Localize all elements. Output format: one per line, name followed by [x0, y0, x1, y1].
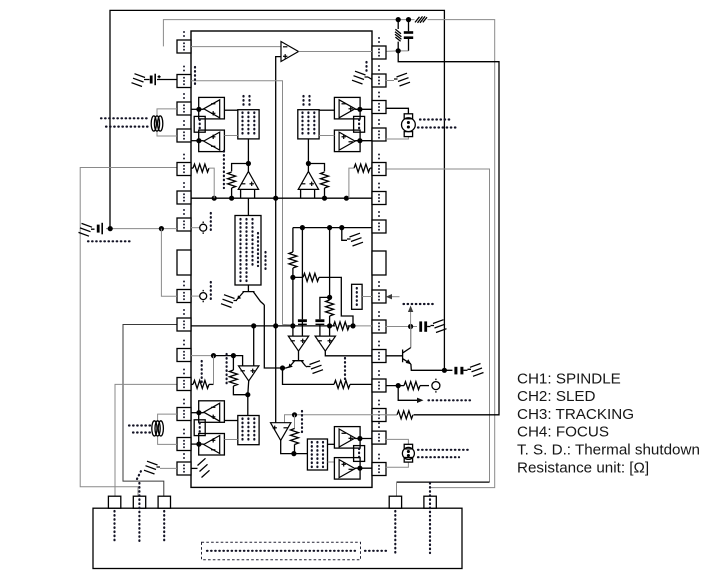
wire pin3R to motor [386, 108, 409, 114]
wire biasL to B [224, 135, 237, 137]
arrow 12R out [398, 386, 418, 401]
node G out [245, 392, 250, 397]
pin 2L [177, 66, 191, 88]
wire pin1R node [386, 50, 409, 53]
pin 1R [372, 37, 386, 59]
op-amp E1 feedback box [334, 97, 360, 119]
wire U1 out to pin1R [299, 51, 373, 53]
wire biasR bottom [307, 139, 309, 172]
capacitor C-fr [454, 367, 457, 375]
wire to R-G1 [232, 164, 249, 172]
op-amp C feedback box [199, 401, 225, 423]
wire tab R1 riser [397, 481, 490, 483]
logic box [235, 216, 261, 286]
wire rail1 [191, 197, 372, 199]
pin 9R [372, 281, 386, 303]
op-amp F [339, 460, 355, 478]
wire biasR2 to E [328, 443, 335, 445]
node pin15R [357, 466, 362, 471]
wire 10R down [410, 327, 412, 348]
dashed label box [202, 542, 361, 560]
wire pin1L to U1 [191, 46, 281, 48]
pin 4R [372, 119, 386, 141]
bias box L2 [238, 416, 259, 445]
wire pin4L to motor [157, 131, 177, 136]
wire pin4R [355, 140, 372, 142]
Y1 nodes [300, 225, 305, 230]
wire box to pin9R [362, 296, 372, 298]
pin 12R [372, 370, 386, 392]
wire biasL bottom [247, 139, 249, 172]
rail3 nodes [211, 353, 216, 358]
capacitor C-10R [419, 321, 422, 331]
op-amp H2 (down) [315, 336, 335, 351]
op-amp C [204, 403, 220, 421]
IC body [191, 31, 372, 487]
ground G-10R [431, 320, 447, 333]
transistor QR2 [403, 348, 411, 365]
wire H1 risers [293, 322, 303, 336]
wire pin12R node [386, 385, 404, 387]
node QR emitter [280, 365, 285, 370]
pin 12L [177, 369, 191, 391]
tab L1 [108, 496, 120, 508]
pin 5R [372, 154, 386, 176]
node pin14L [196, 442, 201, 447]
wire QR to R-12R rail [283, 368, 335, 384]
rail1 nodes [212, 196, 217, 201]
wire biasL2 to D [224, 439, 237, 441]
pin 10L [177, 309, 191, 331]
clock pad 9L [191, 295, 200, 297]
svg-text:CH1: SPINDLE: CH1: SPINDLE [517, 370, 621, 387]
node pin4R [357, 138, 362, 143]
motor ML1 coil [151, 116, 163, 131]
wire pin13L to motor [158, 414, 177, 421]
svg-text:Resistance unit: [Ω]: Resistance unit: [Ω] [517, 459, 649, 476]
label dots MR1 [420, 118, 452, 120]
ground G-QR [306, 366, 308, 367]
wire G2 legs [301, 189, 315, 198]
op-amp F1 feedback box [334, 130, 360, 152]
wire pin11R to QR2 [386, 355, 403, 357]
wire top bias line [163, 20, 494, 488]
wire pin4L [191, 140, 204, 142]
svg-text:CH3: TRACKING: CH3: TRACKING [517, 406, 634, 423]
wire pin3R [355, 108, 372, 110]
wire biasR to E1 [319, 109, 334, 111]
ground G-fr [468, 364, 484, 377]
pin 2R [372, 65, 386, 87]
label dots mid [223, 151, 225, 188]
wire QR2 collector [410, 327, 412, 348]
label dots MR2 [418, 449, 471, 451]
resistor R-rail2 [333, 322, 349, 330]
pin 13L [177, 399, 191, 421]
op-amp F feedback box [334, 458, 360, 480]
pin 14L [177, 429, 191, 451]
node 10R [408, 324, 413, 329]
op-amp F1 [339, 132, 355, 150]
op-amp U1 [281, 42, 299, 62]
pin 9L [177, 281, 191, 303]
op-amp H1 (down) [288, 336, 308, 351]
wire logic to QL [247, 285, 249, 292]
node biasL [246, 161, 251, 166]
op-amp E [339, 429, 355, 447]
wire pin14R int [355, 438, 372, 440]
arrow up 10R [410, 310, 412, 327]
resistor R-Y1 [292, 228, 294, 252]
ground G-7L [79, 223, 95, 236]
resistor R-Y2 [303, 273, 319, 281]
wire QR2 emitter [411, 364, 453, 370]
resistor R-G3 [232, 356, 234, 370]
ground G-QL [237, 299, 238, 301]
ground G-Y1 [342, 228, 347, 241]
small box 9R [352, 284, 363, 309]
pin 6R [372, 183, 386, 205]
pin 11L [177, 340, 191, 362]
op-amp D feedback box [199, 434, 225, 456]
pad 12R [432, 382, 440, 390]
resistor R-5R [370, 167, 372, 169]
wire 12L riser [213, 356, 215, 385]
wire pin15R int [355, 467, 372, 469]
wire H1 out [298, 351, 300, 360]
transistor QR [289, 361, 305, 367]
transistor QL [238, 292, 264, 305]
resistor R-T2 [291, 429, 299, 445]
resistor R-G2 [321, 172, 329, 188]
pin 6L [177, 182, 191, 204]
bias box R2 [307, 439, 327, 470]
label dots ML2 [129, 424, 150, 426]
pin 3L [177, 93, 191, 115]
wire C2 jog [320, 297, 330, 319]
small box EF1 [354, 116, 365, 132]
node TSD [292, 412, 297, 417]
motor MR2 [402, 444, 414, 462]
wire biasR to F1 [319, 135, 334, 137]
node pin3R [357, 107, 362, 112]
node 7L/9L branch [159, 226, 164, 231]
svg-text:CH4: FOCUS: CH4: FOCUS [517, 424, 609, 441]
ground G-2R-int [352, 71, 368, 84]
wire pin14L [191, 443, 204, 445]
wire pin12L to tab L1 [115, 384, 177, 496]
wire pin9R stub [389, 296, 400, 298]
wire TSD loop right [398, 51, 499, 415]
wire 7L to 9L [161, 229, 177, 297]
svg-text:CH2: SLED: CH2: SLED [517, 388, 596, 405]
node pin4L [196, 138, 201, 143]
node pin14R [357, 436, 362, 441]
wire C2 branch [329, 228, 331, 298]
wire T2 out [281, 440, 308, 453]
node dots top right [396, 17, 401, 22]
label dots pin2L [194, 67, 196, 85]
op-amp D [204, 436, 220, 454]
wire rail3 [191, 355, 214, 357]
tab label dots [113, 511, 115, 543]
ground G-2L [132, 74, 148, 87]
op-amp B [204, 132, 220, 150]
label dots 9R [404, 303, 437, 305]
ground G-15L-int [191, 467, 198, 469]
clock pad 7L [191, 227, 200, 229]
wire C1 branch [301, 228, 303, 320]
wire pin2L AGND vertical [191, 81, 292, 325]
bias box L [238, 110, 259, 139]
resistor R-5L [191, 167, 193, 169]
resistor R-C2 [326, 300, 334, 316]
node 12R [396, 383, 401, 388]
wire rail2 [191, 325, 353, 327]
node frame/7L [108, 226, 113, 231]
wire VCC frame top/left [110, 10, 444, 370]
label dots ML1 [101, 117, 149, 119]
capacitor C1 [298, 319, 307, 322]
wire rail2 to G [253, 326, 255, 366]
wire logic box riser [247, 198, 249, 215]
label dots bottom [207, 550, 355, 552]
wire pin3L to motor [157, 109, 177, 116]
resistor R-12Rint [334, 380, 350, 388]
wire QL collector [264, 305, 282, 368]
wire G out [247, 381, 250, 416]
wire pin10L loop [123, 325, 177, 497]
motor ML2 coil [152, 421, 164, 436]
node T2 out [291, 451, 296, 456]
pin 13R [372, 400, 386, 422]
resistor R-G1 [228, 172, 236, 188]
wire pin4R to motor [386, 137, 409, 139]
resistor R-top1 (vertical) [395, 29, 401, 41]
label dots pin2R [365, 62, 367, 74]
node R-Y1 bottom [290, 275, 295, 280]
wire TSD line [285, 415, 398, 423]
wire H2 risers [320, 326, 330, 336]
pin 8R (blank) [372, 251, 386, 275]
capacitor C-top1 [408, 20, 410, 51]
pin 14R [372, 422, 386, 444]
node pin13L [196, 410, 201, 415]
pin 3R [372, 92, 386, 114]
wire pin14L to motor [158, 436, 177, 444]
pin 11R [372, 341, 386, 363]
label dots 12R [429, 399, 472, 401]
wire pin13L [191, 412, 204, 414]
resistor R-TSD [397, 411, 413, 419]
wire pin10R node [386, 326, 417, 328]
wire pin7L ext [106, 228, 177, 230]
op-amp G1 (up) [238, 171, 258, 189]
capacitor C2 [315, 319, 324, 322]
pin 10R [372, 311, 386, 333]
wire to R-G2 [308, 164, 324, 172]
small box EF2 [354, 446, 365, 462]
wire pin5L far-left loop [80, 168, 177, 497]
pin 15L [177, 453, 191, 475]
op-amp G2 (up) [298, 171, 318, 189]
wire biasR2 to F [328, 461, 335, 463]
wire R-5R down [349, 168, 354, 198]
tab R2 [424, 496, 436, 508]
node biasR [306, 161, 311, 166]
bias box R [298, 110, 319, 139]
wire H2 out to pin11R [325, 351, 372, 356]
resistor R-12L [191, 383, 193, 385]
pin 1L [177, 31, 191, 53]
wire biasL to A [224, 109, 237, 111]
node frame emitter [442, 368, 447, 373]
wire U1 + input vertical [276, 57, 281, 423]
wire pin5R loop [386, 169, 490, 482]
small box CD [194, 420, 205, 436]
wire QR emitter [283, 367, 290, 368]
label dots under C-7L [88, 240, 133, 242]
op-amp E1 [339, 100, 355, 118]
small box AB [194, 116, 205, 132]
wire G1 legs [241, 189, 255, 198]
wire pin15R to motor [386, 462, 409, 468]
op-amp A feedback box [199, 97, 225, 119]
wire TSD down [294, 415, 296, 429]
wire Y1 rail [293, 227, 372, 229]
wire pin3L [191, 108, 204, 110]
rail2 nodes [251, 323, 256, 328]
capacitor C-7L [97, 225, 100, 233]
tab L3 [158, 496, 170, 508]
op-amp B feedback box [199, 130, 225, 152]
pin 15R [372, 454, 386, 476]
node pin3L [196, 107, 201, 112]
resistor R-12R [404, 382, 420, 390]
op-amp T2 (down) [271, 423, 291, 441]
ground G-15L-ext [160, 467, 177, 469]
wire biasL2 to C [224, 420, 237, 422]
connector block [93, 508, 462, 568]
svg-text:T. S. D.: Thermal shutdown: T. S. D.: Thermal shutdown [517, 442, 700, 459]
pin 7R [372, 211, 386, 233]
op-amp G (down) [239, 366, 259, 381]
capacitor C-2L [148, 79, 178, 81]
pin 4L [177, 120, 191, 142]
pin 8L (blank) [177, 250, 191, 275]
wire pin13R ext [386, 414, 397, 416]
pin 7L [177, 209, 191, 231]
wire R-5L down [209, 168, 214, 198]
pin 5L [177, 154, 191, 176]
label rot L2 [137, 469, 142, 479]
op-amp E feedback box [334, 427, 360, 449]
wire pin14R to motor [386, 439, 409, 444]
node C2 [327, 295, 332, 300]
tab L2 [133, 496, 145, 508]
resistor R-top2 (horizontal on bias line) [415, 16, 428, 24]
op-amp A [204, 100, 220, 118]
motor MR1 [402, 114, 416, 137]
ground G-2R-ext [386, 80, 394, 82]
tab R1 [389, 496, 401, 508]
